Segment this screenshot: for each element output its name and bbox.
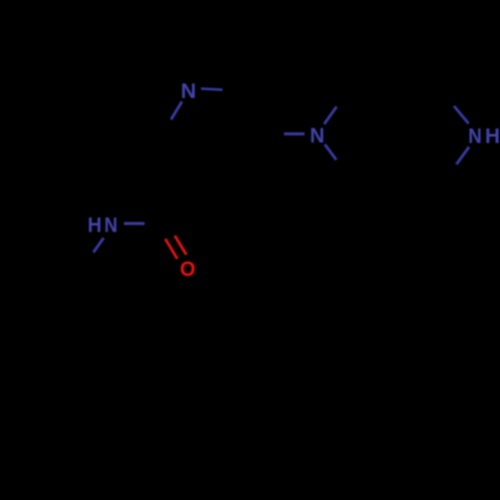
bond N1-C2 half (blue), horizontal right (201, 89, 223, 90)
carbonyl double bond C=O red half, offset line (165, 239, 177, 259)
svg-text:O: O (180, 257, 195, 281)
svg-text:H: H (88, 214, 102, 237)
bond N2-C down-right half (blue) (325, 144, 337, 159)
bond CH2-N2 half (blue), horizontal into piperidine N (284, 132, 305, 135)
svg-text:N: N (104, 214, 117, 238)
carbonyl double bond C=O red half, main line (175, 236, 187, 255)
bond N2-C up-right half (blue) (324, 107, 336, 124)
svg-text:H: H (485, 125, 500, 148)
svg-text:N: N (181, 79, 196, 103)
bond N3-C down-left half (blue) (456, 147, 469, 164)
bond N1-C6 half (blue), down-left (171, 102, 182, 120)
svg-text:N: N (468, 125, 482, 148)
bond N4-CR half (blue), down-left (93, 238, 103, 252)
svg-text:N: N (310, 124, 325, 148)
bond N4-C(=O) half (blue), horizontal right (124, 222, 145, 225)
bond N3-C up-left half (blue) (454, 106, 469, 124)
